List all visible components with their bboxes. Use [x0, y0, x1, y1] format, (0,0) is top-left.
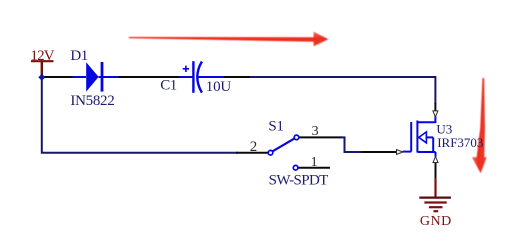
svg-text:GND: GND: [420, 214, 452, 229]
svg-text:2: 2: [250, 139, 257, 155]
svg-text:S1: S1: [268, 119, 283, 135]
svg-text:10U: 10U: [206, 79, 232, 95]
svg-text:12V: 12V: [30, 48, 54, 64]
svg-text:IN5822: IN5822: [70, 93, 114, 109]
svg-text:U3: U3: [436, 121, 452, 136]
svg-text:SW-SPDT: SW-SPDT: [269, 173, 329, 189]
svg-text:C1: C1: [160, 77, 177, 93]
svg-text:D1: D1: [70, 48, 87, 64]
svg-text:3: 3: [312, 124, 319, 139]
svg-text:IRF3703: IRF3703: [437, 135, 483, 150]
svg-text:1: 1: [311, 155, 318, 170]
